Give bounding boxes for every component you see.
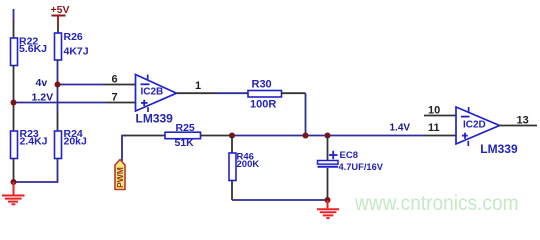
svg-text:IC2B: IC2B bbox=[141, 87, 164, 98]
wire R30 right then down to comparator output node bbox=[282, 93, 306, 135]
junction EC8 node bbox=[325, 133, 331, 139]
power +5V bbox=[51, 4, 70, 27]
resistor R30 bbox=[248, 79, 282, 111]
resistor R46 bbox=[229, 151, 259, 180]
resistor R24 bbox=[55, 128, 88, 159]
wire R25 row left elbow down to PWM flag bbox=[122, 136, 126, 162]
svg-text:R30: R30 bbox=[252, 79, 272, 91]
wire R25 right across to pin 11 of IC2D bbox=[201, 135, 457, 137]
svg-text:5.6KJ: 5.6KJ bbox=[19, 43, 47, 55]
svg-text:LM339: LM339 bbox=[136, 112, 174, 126]
wire pin 10 stub bbox=[424, 115, 456, 117]
junction 4v node bbox=[55, 82, 61, 88]
ground GND2 bbox=[317, 200, 339, 218]
junction ground node left bbox=[11, 179, 17, 185]
wire IC2D output pin 13 bbox=[500, 125, 538, 127]
svg-text:IC2D: IC2D bbox=[463, 120, 486, 131]
resistor R26 bbox=[55, 31, 89, 60]
svg-text:20kJ: 20kJ bbox=[64, 136, 88, 148]
wire EC8 bottom to ground node bbox=[327, 168, 329, 200]
junction 1.2V node bbox=[11, 100, 17, 106]
svg-text:EC8: EC8 bbox=[340, 150, 358, 161]
wire R23 bottom to ground node bbox=[13, 159, 15, 183]
svg-text:51K: 51K bbox=[175, 137, 195, 149]
junction middle ground node bbox=[325, 197, 331, 203]
svg-text:www.cntronics.com: www.cntronics.com bbox=[354, 192, 518, 215]
svg-text:4K7J: 4K7J bbox=[64, 46, 89, 58]
resistor R23 bbox=[11, 128, 48, 159]
svg-text:LM339: LM339 bbox=[480, 142, 518, 156]
svg-text:200K: 200K bbox=[237, 159, 260, 170]
capacitor EC8 bbox=[318, 150, 384, 172]
wire R25 left lead bbox=[124, 135, 165, 137]
wire EC8 node down to capacitor bbox=[327, 136, 329, 161]
net label PWM flag bbox=[115, 160, 125, 190]
svg-text:4.7UF/16V: 4.7UF/16V bbox=[339, 162, 384, 172]
wire node to R46 top bbox=[231, 136, 233, 154]
svg-text:11: 11 bbox=[428, 122, 440, 134]
svg-text:6: 6 bbox=[112, 74, 118, 86]
svg-text:4v: 4v bbox=[36, 77, 48, 89]
junction R46 node bbox=[229, 133, 235, 139]
svg-text:7: 7 bbox=[112, 92, 118, 104]
wire R24 bottom to ground node bbox=[14, 159, 58, 183]
op-amp IC2B bbox=[136, 75, 177, 126]
wire R26 bottom down to R24 top bbox=[57, 60, 59, 131]
wire 1.2V net to pin 7 bbox=[14, 102, 136, 104]
resistor R22 bbox=[11, 36, 48, 66]
svg-text:100R: 100R bbox=[250, 99, 276, 111]
wire R22 bottom to R23 top bbox=[13, 66, 15, 132]
wire IC2B output to R30 bbox=[177, 92, 249, 94]
svg-text:2.4KJ: 2.4KJ bbox=[20, 136, 48, 148]
svg-text:R26: R26 bbox=[64, 31, 83, 43]
svg-text:1.4V: 1.4V bbox=[390, 123, 411, 134]
wire top feed into R22 column bbox=[13, 9, 15, 38]
wire 4v net to pin 6 bbox=[58, 84, 136, 86]
wire +5V stem to R26 bbox=[57, 27, 59, 33]
junction R30 node bbox=[303, 133, 309, 139]
op-amp IC2D bbox=[456, 107, 518, 156]
svg-text:PWM: PWM bbox=[115, 167, 125, 188]
svg-text:R25: R25 bbox=[176, 122, 195, 134]
resistor R25 bbox=[165, 122, 201, 149]
svg-text:1: 1 bbox=[195, 80, 201, 92]
svg-text:+5V: +5V bbox=[51, 4, 70, 16]
wire R46 bottom elbow to ground node bbox=[232, 181, 328, 201]
ground GND1 bbox=[2, 182, 25, 204]
